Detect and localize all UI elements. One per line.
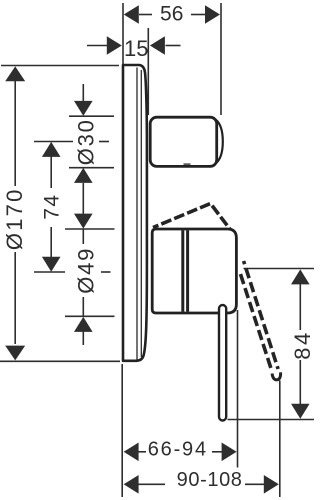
svg-text:Ø170: Ø170 [2, 187, 27, 250]
svg-text:56: 56 [160, 3, 183, 26]
svg-text:84: 84 [290, 330, 315, 359]
svg-text:Ø30: Ø30 [74, 118, 99, 165]
svg-text:90-108: 90-108 [177, 469, 243, 491]
svg-text:Ø49: Ø49 [74, 247, 99, 294]
svg-text:66-94: 66-94 [148, 439, 208, 461]
svg-text:15: 15 [124, 36, 148, 61]
svg-text:74: 74 [40, 193, 63, 219]
